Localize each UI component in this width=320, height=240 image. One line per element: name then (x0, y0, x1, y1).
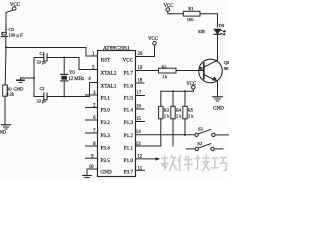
pin 3 stub (86, 94, 98, 96)
resistor R0 8.2k (3, 85, 15, 97)
capacitor C0 (electrolytic 100uF) (1, 27, 23, 48)
pin 2 stub (86, 107, 98, 109)
wire: R5 bottom (184, 119, 186, 135)
svg-text:P1.3: P1.3 (124, 120, 134, 126)
wire: gnd tap (21, 78, 35, 80)
resistor R3 2k (159, 106, 170, 119)
wire: R4 bottom (172, 119, 174, 146)
svg-text:2 k: 2 k (188, 114, 194, 119)
wire: R1 to LED (200, 14, 218, 27)
svg-text:P1.1: P1.1 (124, 146, 134, 152)
ground (bottom-left) (0, 125, 11, 135)
svg-text:S3: S3 (198, 127, 204, 132)
svg-text:2 k: 2 k (164, 114, 170, 119)
pin 16 stub (136, 108, 145, 110)
wire: rail drops to R3 R4 R5 (161, 91, 185, 106)
pin 6 stub (86, 119, 98, 121)
node junctions on rail (172, 90, 174, 92)
svg-text:C2: C2 (40, 86, 45, 91)
pin 10 wire to ground (87, 169, 98, 175)
pull-up rail (161, 90, 194, 92)
svg-text:P1.5: P1.5 (124, 95, 134, 101)
pin 18 stub (136, 82, 145, 84)
svg-text:AT89C2051: AT89C2051 (103, 46, 130, 52)
svg-text:VCC: VCC (148, 37, 158, 42)
node junction at rail/RST (5, 47, 7, 49)
node junction R5/pin14 (184, 134, 186, 136)
VCC symbol top-left (6, 3, 21, 32)
wire: R2 to base (176, 70, 204, 72)
resistor R2 1k (159, 65, 177, 80)
wire: rail down to R0 (4, 48, 7, 86)
svg-text:P1.4: P1.4 (124, 107, 134, 113)
svg-text:+: + (5, 27, 8, 32)
wire: pin 19 to R2 (136, 70, 159, 72)
svg-text:GND: GND (101, 169, 112, 175)
svg-text:GND: GND (13, 86, 24, 91)
svg-text:P1.2: P1.2 (124, 133, 134, 139)
svg-text:100: 100 (187, 17, 194, 22)
transistor Q0 9013 (199, 59, 234, 83)
svg-text:2 k: 2 k (176, 114, 182, 119)
svg-text:100 µ F: 100 µ F (9, 32, 24, 37)
svg-text:P3.5: P3.5 (101, 158, 111, 164)
wire: S2 left lead (187, 148, 196, 150)
pin 15 stub (136, 121, 145, 123)
svg-text:P3.1: P3.1 (101, 95, 111, 101)
wire: R3 bottom (160, 119, 162, 146)
VCC symbol top-right (164, 4, 184, 14)
svg-text:C0: C0 (9, 27, 15, 32)
pin 9 stub (86, 157, 98, 159)
pin 17 stub (136, 95, 145, 97)
svg-text:R1: R1 (188, 6, 193, 11)
wire: XTAL2 drop to pin 5 (79, 58, 98, 70)
svg-text:R4: R4 (176, 108, 182, 113)
switch S3 (195, 127, 229, 137)
wire: VCC rail to RST (node) (6, 48, 98, 57)
pin numbers left (88, 52, 96, 170)
resistor R4 2k (171, 106, 182, 119)
svg-text:R5: R5 (188, 108, 194, 113)
wire: R0 to ground (4, 96, 6, 124)
resistor R1 100 (183, 6, 200, 22)
svg-text:GND: GND (213, 106, 224, 111)
watermark 软件技巧 (vector strokes) (161, 155, 227, 172)
svg-text:P3.4: P3.4 (101, 146, 111, 152)
wire: collector up to LED (217, 35, 219, 61)
svg-text:XTAL1: XTAL1 (101, 83, 117, 89)
svg-text:VCC: VCC (123, 58, 134, 64)
wire: pin 14 row to S3 (136, 134, 195, 136)
IC left pin labels (101, 58, 117, 176)
svg-text:33 pF: 33 pF (37, 60, 48, 65)
svg-text:R3: R3 (164, 108, 170, 113)
svg-text:Q0: Q0 (224, 60, 229, 65)
svg-text:P1.7: P1.7 (124, 70, 134, 76)
ground (crystal) (13, 80, 24, 91)
svg-text:Y0: Y0 (69, 71, 75, 76)
svg-text:D3: D3 (219, 23, 225, 28)
svg-text:P3.7: P3.7 (124, 169, 134, 175)
svg-text:P1.6: P1.6 (124, 83, 134, 89)
IC right pin labels (123, 58, 134, 176)
node junction gnd tap (33, 77, 35, 79)
ground (pin 10) (83, 176, 91, 178)
svg-text:GND: GND (0, 130, 7, 135)
wire: pin 12 arrow (136, 157, 161, 160)
svg-text:XTAL2: XTAL2 (101, 70, 117, 76)
pin 11 stub (136, 169, 145, 171)
capacitor C1 33pF (34, 51, 79, 65)
wire: pin 20 to VCC (136, 45, 155, 57)
svg-text:S2: S2 (197, 141, 203, 146)
pin 8 stub (86, 145, 98, 147)
wire: XTAL1 rise to pin 4 (90, 83, 98, 97)
crystal Y0 12MHz (61, 57, 85, 98)
svg-text:P3.3: P3.3 (101, 133, 111, 139)
VCC symbol (pull-up rail) (186, 82, 196, 91)
LED D3 SIR (infrared) (198, 23, 225, 35)
svg-text:R2: R2 (162, 65, 167, 70)
svg-text:P3.0: P3.0 (101, 107, 111, 113)
svg-text:P3.2: P3.2 (101, 120, 111, 126)
svg-text:33 pF: 33 pF (37, 99, 48, 104)
VCC symbol (pin 20) (148, 37, 158, 45)
svg-text:RST: RST (101, 58, 111, 64)
wire: pin 13 row to R3 (136, 145, 161, 147)
svg-text:B: B (199, 67, 203, 73)
ground rail left of crystal (33, 58, 35, 97)
svg-text:P1.0: P1.0 (124, 158, 134, 164)
switch S2 (195, 141, 223, 150)
svg-text:12 MHz: 12 MHz (68, 77, 84, 82)
op IC U0 AT89C2051 body (98, 46, 136, 177)
resistor R5 2k (183, 106, 194, 119)
wire: emitter down to ground (217, 81, 219, 96)
pin numbers right (136, 52, 143, 171)
svg-text:9013: 9013 (224, 66, 229, 71)
ground (emitter) (213, 97, 225, 112)
wire: LED to collector (217, 34, 219, 41)
svg-text:8.2k: 8.2k (6, 92, 15, 97)
pin 7 stub (86, 132, 98, 134)
svg-text:SIR: SIR (198, 29, 205, 34)
capacitor C2 33pF (34, 86, 90, 104)
